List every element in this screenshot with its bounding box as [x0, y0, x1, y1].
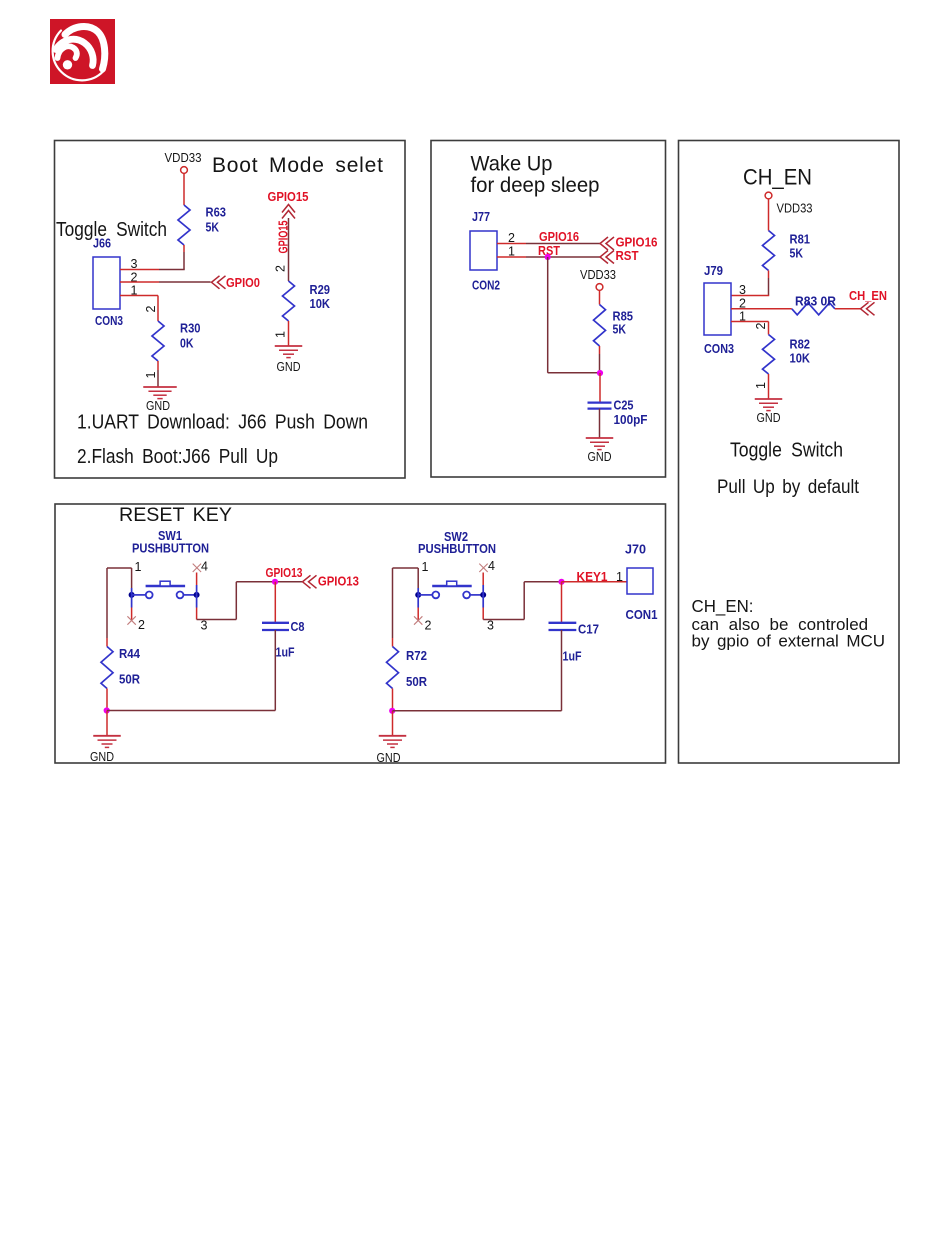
- svg-text:5K: 5K: [206, 221, 220, 235]
- svg-text:KEY1: KEY1: [577, 569, 608, 584]
- svg-text:10K: 10K: [310, 297, 331, 311]
- svg-text:Pull Up by default: Pull Up by default: [717, 477, 860, 498]
- svg-text:5K: 5K: [613, 323, 627, 337]
- svg-text:R63: R63: [206, 206, 227, 220]
- svg-text:GND: GND: [90, 750, 114, 764]
- svg-text:R44: R44: [119, 647, 140, 661]
- svg-text:for deep sleep: for deep sleep: [471, 174, 600, 197]
- svg-text:Boot Mode selet: Boot Mode selet: [212, 154, 384, 177]
- svg-text:VDD33: VDD33: [165, 151, 202, 165]
- svg-text:2.Flash Boot:J66 Pull Up: 2.Flash Boot:J66 Pull Up: [77, 446, 278, 468]
- svg-text:2: 2: [138, 618, 145, 632]
- svg-text:R81: R81: [790, 233, 811, 247]
- svg-text:3: 3: [487, 619, 494, 633]
- svg-text:2: 2: [425, 619, 432, 633]
- svg-text:Toggle Switch: Toggle Switch: [56, 219, 167, 241]
- svg-text:GND: GND: [277, 360, 301, 374]
- svg-text:0K: 0K: [180, 337, 194, 351]
- svg-text:RST: RST: [616, 248, 639, 263]
- svg-text:3: 3: [201, 619, 208, 633]
- svg-text:CH_EN: CH_EN: [849, 288, 887, 303]
- svg-text:1: 1: [616, 570, 623, 584]
- svg-text:1: 1: [135, 560, 142, 574]
- svg-text:4: 4: [488, 559, 495, 573]
- svg-text:PUSHBUTTON: PUSHBUTTON: [418, 542, 496, 556]
- svg-text:J70: J70: [625, 543, 646, 557]
- svg-text:R29: R29: [310, 283, 331, 297]
- svg-text:GPIO13: GPIO13: [266, 565, 303, 580]
- svg-text:GND: GND: [588, 450, 612, 464]
- svg-text:1.UART Download: J66 Push Down: 1.UART Download: J66 Push Down: [77, 412, 368, 434]
- svg-text:1uF: 1uF: [563, 650, 582, 664]
- svg-text:GPIO13: GPIO13: [318, 574, 359, 589]
- svg-text:GND: GND: [757, 411, 781, 425]
- svg-text:100pF: 100pF: [614, 413, 648, 427]
- svg-text:R85: R85: [613, 310, 634, 324]
- svg-text:CON1: CON1: [626, 608, 658, 622]
- svg-text:2: 2: [754, 322, 768, 329]
- svg-text:2: 2: [274, 265, 288, 272]
- svg-text:VDD33: VDD33: [580, 268, 616, 282]
- svg-text:1: 1: [274, 331, 288, 338]
- svg-text:2: 2: [144, 305, 158, 312]
- svg-text:CON3: CON3: [704, 342, 734, 356]
- svg-text:R82: R82: [790, 338, 811, 352]
- svg-text:GPIO15: GPIO15: [268, 189, 309, 204]
- svg-text:J77: J77: [472, 210, 490, 224]
- svg-text:3: 3: [739, 283, 746, 297]
- svg-text:4: 4: [201, 560, 208, 574]
- svg-text:GPIO0: GPIO0: [226, 275, 260, 290]
- svg-text:1: 1: [754, 382, 768, 389]
- svg-text:50R: 50R: [406, 675, 427, 689]
- svg-text:Toggle Switch: Toggle Switch: [730, 440, 843, 462]
- svg-text:50R: 50R: [119, 673, 140, 687]
- svg-text:by gpio of external MCU: by gpio of external MCU: [692, 632, 886, 651]
- svg-text:GND: GND: [377, 751, 401, 765]
- svg-text:GPIO15: GPIO15: [276, 221, 291, 254]
- svg-text:CON2: CON2: [472, 279, 500, 293]
- svg-text:J66: J66: [93, 237, 111, 251]
- svg-text:5K: 5K: [790, 247, 804, 261]
- svg-text:CH_EN:: CH_EN:: [692, 596, 754, 617]
- svg-text:CON3: CON3: [95, 314, 123, 328]
- svg-text:C17: C17: [578, 623, 599, 637]
- svg-text:C25: C25: [614, 399, 634, 413]
- svg-text:Wake Up: Wake Up: [471, 153, 553, 176]
- svg-text:C8: C8: [291, 620, 305, 634]
- svg-text:VDD33: VDD33: [777, 202, 813, 216]
- svg-text:PUSHBUTTON: PUSHBUTTON: [132, 542, 209, 556]
- svg-text:10K: 10K: [790, 352, 811, 366]
- svg-text:GPIO16: GPIO16: [539, 229, 579, 244]
- svg-text:R83 0R: R83 0R: [795, 295, 836, 309]
- svg-text:R30: R30: [180, 322, 201, 336]
- svg-text:1: 1: [422, 560, 429, 574]
- svg-text:R72: R72: [406, 649, 427, 663]
- svg-text:1uF: 1uF: [276, 646, 295, 660]
- svg-text:CH_EN: CH_EN: [743, 165, 812, 190]
- svg-text:RESET KEY: RESET KEY: [119, 504, 232, 526]
- svg-text:J79: J79: [704, 264, 723, 278]
- svg-text:1: 1: [144, 371, 158, 378]
